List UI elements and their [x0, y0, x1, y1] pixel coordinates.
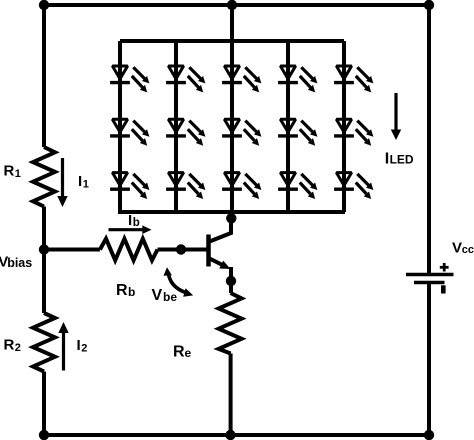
LED D12 row3 col2	[166, 173, 205, 199]
transistor Q1 emitter lead with arrow	[210, 259, 231, 270]
node top-center junction	[227, 0, 237, 10]
wire LED column 4	[286, 41, 290, 212]
label Ib	[128, 212, 140, 229]
svg-text:b: b	[128, 285, 135, 299]
label Vcc	[452, 240, 474, 257]
LED D8 row2 col3	[222, 119, 261, 145]
Vbe curved arrow	[164, 267, 194, 296]
svg-text:I: I	[78, 173, 82, 190]
resistor Rb	[100, 239, 158, 261]
wire LED column 3	[230, 41, 234, 212]
wire base to transistor	[158, 248, 207, 252]
node bottom-left junction	[39, 430, 49, 440]
label R1	[4, 163, 21, 181]
svg-text:I: I	[385, 151, 389, 168]
label I2	[77, 337, 88, 355]
current arrow I2	[58, 322, 68, 371]
svg-text:2: 2	[81, 343, 87, 355]
wire LED column 5	[342, 41, 346, 212]
svg-text:I: I	[77, 337, 81, 354]
current arrow I1	[57, 158, 67, 207]
LED D6 row2 col1	[110, 119, 149, 145]
wire emitter resistor to ground rail	[229, 354, 233, 436]
LED D10 row2 col5	[334, 119, 373, 145]
label Vbias	[0, 254, 32, 271]
wire left rail middle	[42, 207, 46, 314]
wire right rail upper	[427, 5, 431, 273]
node base junction	[176, 244, 186, 254]
node Vbias junction	[39, 244, 49, 254]
label R2	[4, 337, 21, 355]
svg-text:b: b	[133, 217, 140, 229]
battery V1 negative plate	[414, 281, 445, 285]
svg-text:LED: LED	[390, 153, 414, 167]
LED D2 row1 col2	[166, 66, 205, 92]
svg-text:1: 1	[15, 168, 21, 180]
wire base from Vbias	[44, 248, 100, 252]
svg-text:R: R	[4, 163, 15, 180]
wire LED top bus	[120, 39, 344, 43]
node emitter junction	[226, 276, 236, 286]
svg-text:1: 1	[83, 179, 89, 191]
wire LED column 1	[118, 41, 122, 212]
LED D3 row1 col3	[222, 66, 261, 92]
wire left rail upper	[42, 5, 46, 147]
battery V1 positive plate	[406, 273, 454, 277]
LED D15 row3 col5	[334, 173, 373, 199]
resistor Re	[219, 293, 242, 354]
LED D9 row2 col4	[278, 119, 317, 145]
svg-text:bias: bias	[7, 256, 32, 270]
label Rb	[116, 282, 135, 299]
LED D5 row1 col5	[334, 66, 373, 92]
battery V1 plus sign	[440, 263, 449, 272]
svg-text:I: I	[128, 212, 132, 229]
svg-text:V: V	[152, 287, 163, 304]
battery V1 minus mark	[441, 285, 446, 293]
LED D14 row3 col4	[278, 173, 317, 199]
wire top rail	[44, 3, 429, 7]
node top-left junction	[39, 0, 49, 10]
node collector junction	[226, 213, 236, 223]
transistor Q1 collector lead	[210, 214, 232, 242]
svg-text:2: 2	[15, 342, 21, 354]
wire center drop to LED bus	[230, 5, 234, 41]
wire emitter down	[229, 267, 233, 293]
LED D7 row2 col2	[166, 119, 205, 145]
node bottom-center junction	[225, 430, 235, 440]
wire right rail lower	[427, 283, 431, 435]
svg-text:be: be	[163, 290, 177, 304]
resistor R1	[33, 147, 55, 207]
label Re	[173, 344, 192, 361]
svg-text:R: R	[4, 337, 15, 354]
LED D11 row3 col1	[110, 173, 149, 199]
transistor Q1 base bar	[206, 235, 211, 267]
current arrow Ib	[109, 225, 152, 234]
LED D4 row1 col4	[278, 66, 317, 92]
svg-text:V: V	[452, 240, 462, 257]
svg-text:e: e	[185, 346, 192, 360]
node top-right junction	[424, 0, 434, 10]
svg-text:R: R	[173, 344, 185, 361]
wire bottom rail	[44, 433, 429, 437]
label ILED	[385, 151, 414, 168]
resistor R2	[33, 313, 55, 372]
svg-text:R: R	[116, 282, 128, 299]
wire LED column 2	[174, 41, 178, 212]
LED D1 row1 col1	[110, 66, 149, 92]
current arrow ILED	[391, 93, 401, 140]
wire LED bottom bus	[118, 210, 345, 214]
node bottom-right junction	[424, 430, 434, 440]
label I1	[78, 173, 89, 191]
svg-text:cc: cc	[462, 244, 474, 256]
LED D13 row3 col3	[222, 173, 261, 199]
label Vbe	[152, 287, 178, 304]
wire left rail lower	[42, 372, 46, 436]
